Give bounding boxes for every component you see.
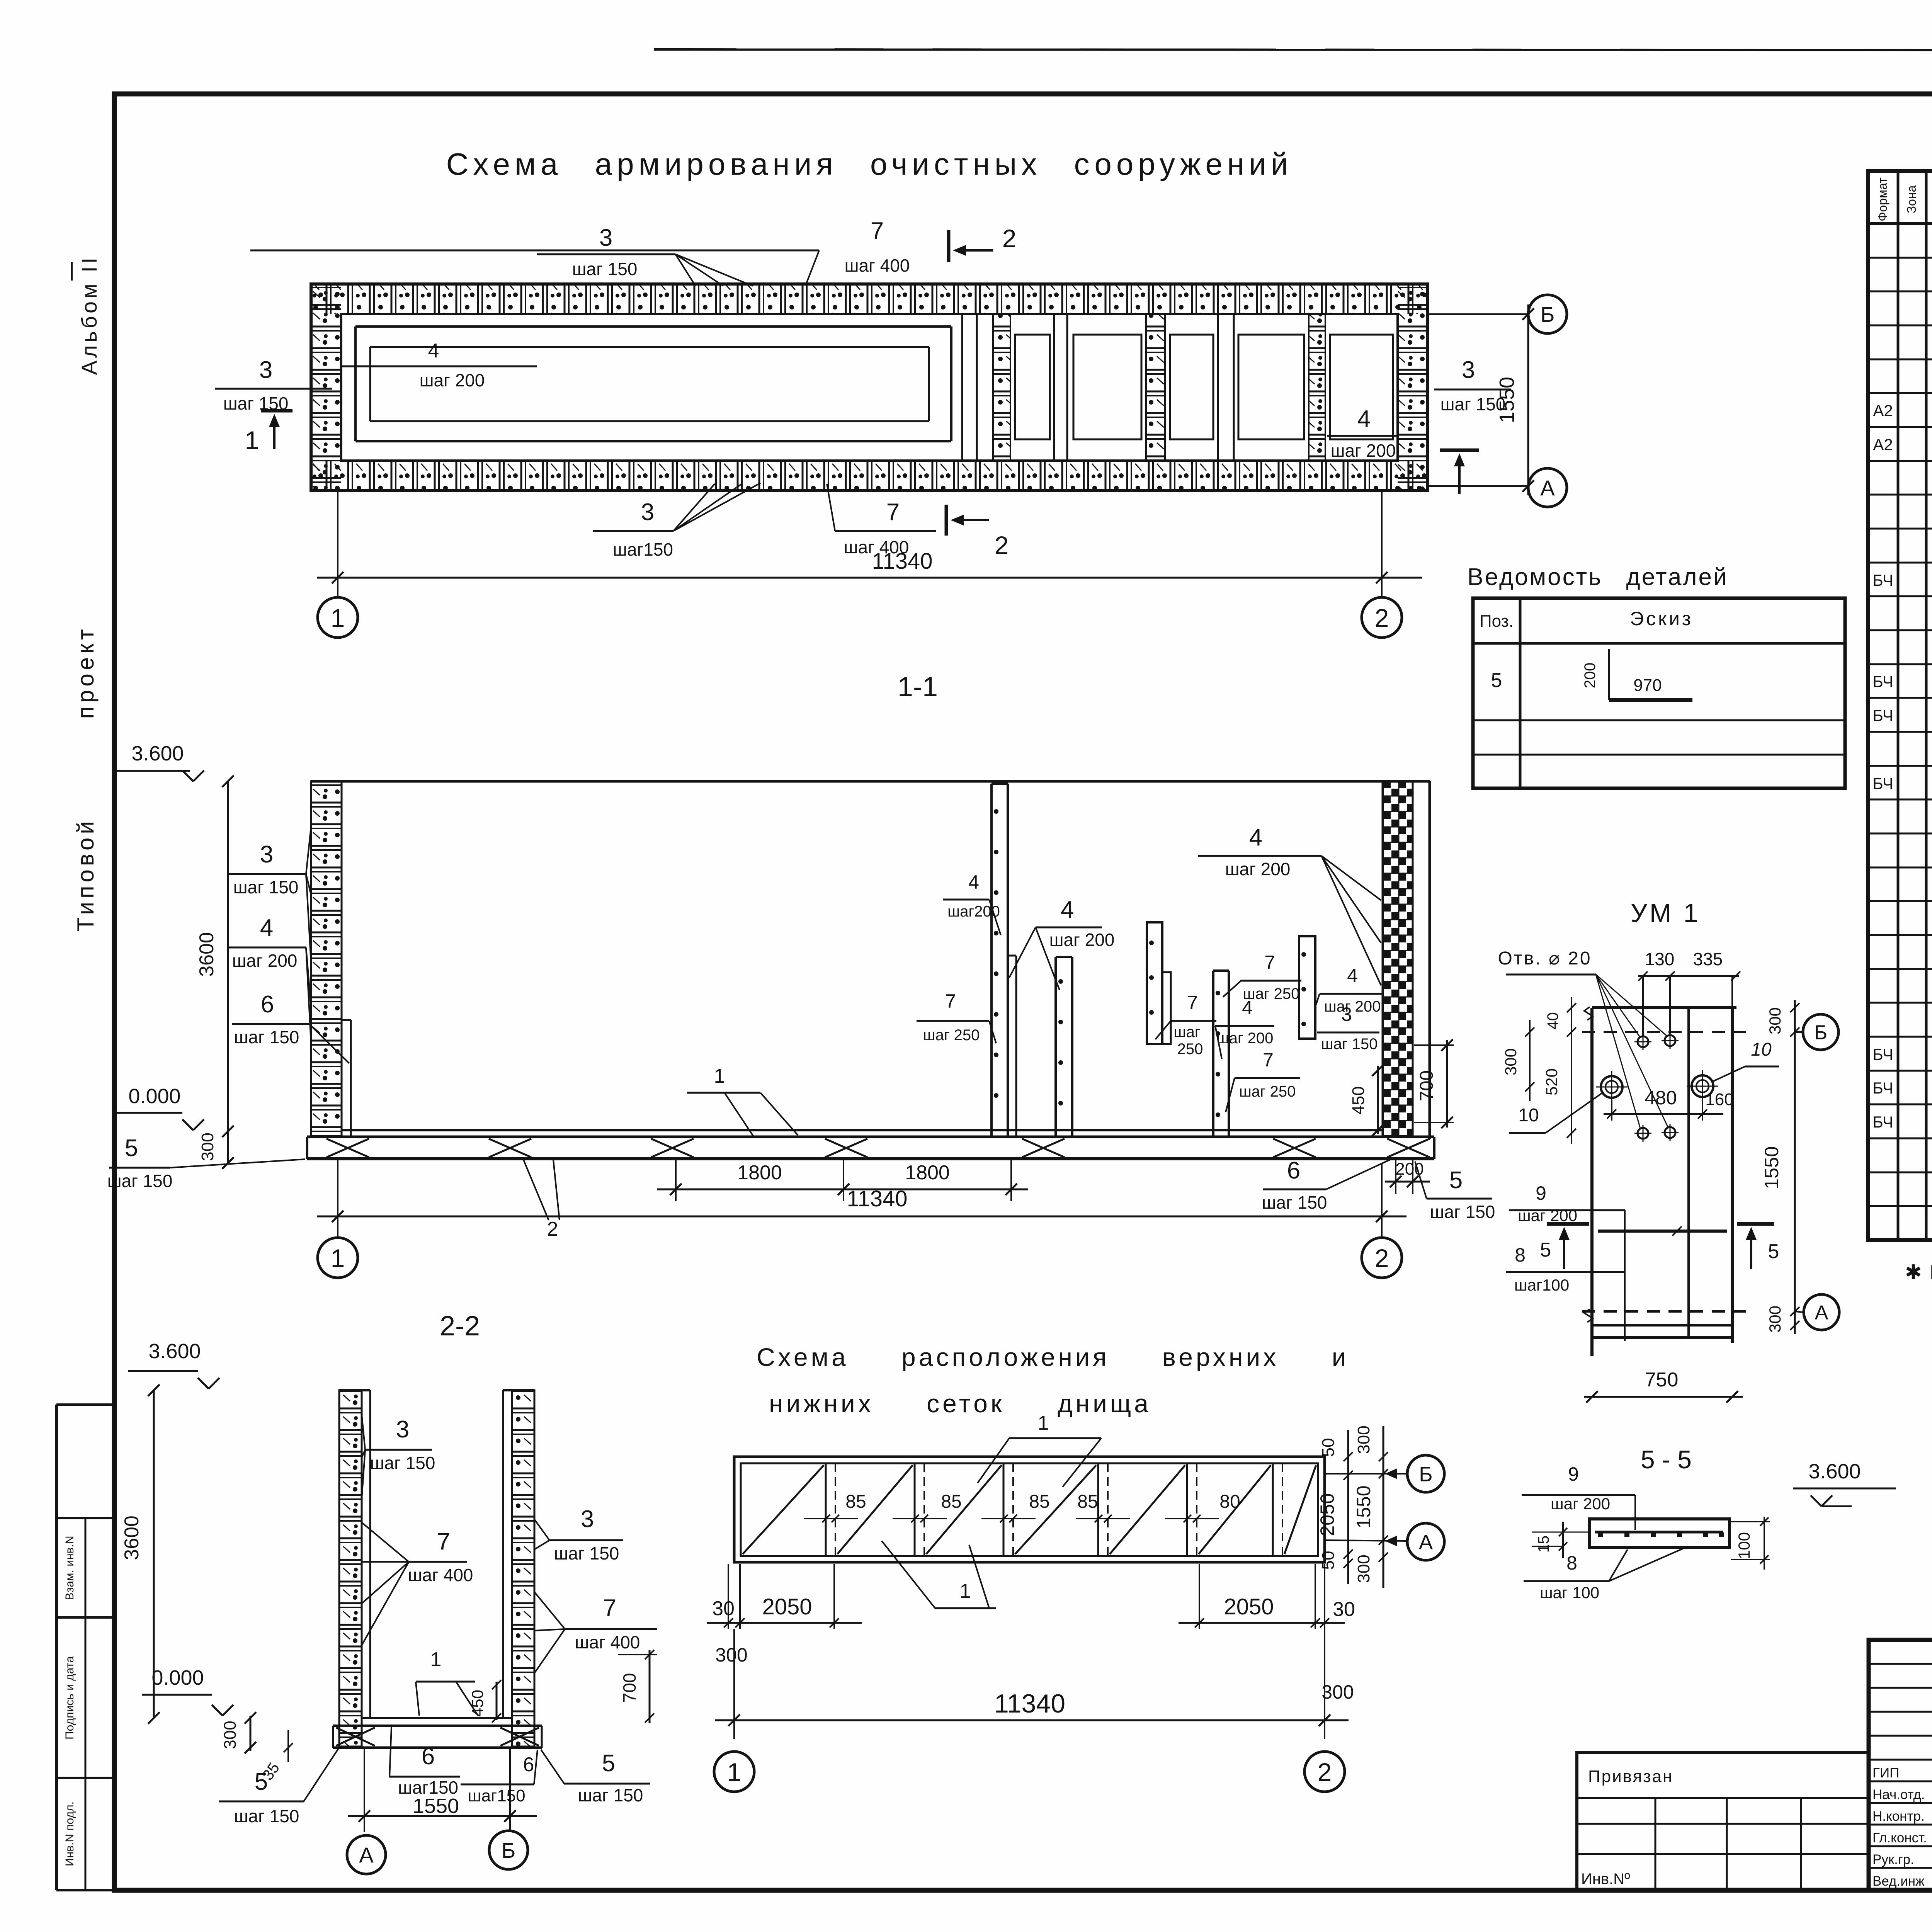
УМ1 hole c3: [1638, 1128, 1648, 1139]
section cut mark 1 right: [1440, 449, 1479, 452]
svg-text:1: 1: [714, 1065, 725, 1087]
svg-text:шаг 200: шаг 200: [1324, 998, 1381, 1015]
plan thin double wall E: [1217, 314, 1219, 461]
axis circle А (mesh): [1407, 1523, 1444, 1560]
svg-text:1800: 1800: [737, 1162, 782, 1184]
section 1-1 top line: [311, 780, 1430, 783]
svg-text:300: 300: [1354, 1425, 1373, 1454]
mesh plan dividers: [825, 1463, 827, 1556]
axis circle 2 (sec1-1): [1362, 1238, 1402, 1278]
svg-text:шаг 200: шаг 200: [232, 951, 298, 971]
svg-text:шаг 150: шаг 150: [1430, 1202, 1495, 1222]
svg-text:шаг 150: шаг 150: [233, 877, 299, 897]
sheet top edge scan line: [654, 49, 1932, 50]
svg-text:Формат: Формат: [1876, 177, 1889, 221]
sec2-2 left wall: [339, 1390, 362, 1747]
svg-text:1: 1: [430, 1648, 442, 1671]
axis circle Б (УМ1): [1795, 1031, 1803, 1033]
svg-text:4: 4: [1347, 965, 1358, 986]
axis circle А (УМ1): [1795, 1311, 1803, 1312]
svg-text:10: 10: [1518, 1105, 1539, 1126]
plan wall band top (mesh ladder): [311, 284, 1428, 314]
svg-text:1550: 1550: [1353, 1485, 1374, 1528]
svg-text:5 - 5: 5 - 5: [1641, 1445, 1692, 1474]
svg-text:3.600: 3.600: [1808, 1460, 1861, 1483]
vert dim 3600 (2-2): [153, 1390, 155, 1718]
svg-text:80: 80: [1219, 1492, 1240, 1512]
svg-text:БЧ: БЧ: [1872, 774, 1893, 793]
УМ1 cut mark 5 left: [1547, 1222, 1589, 1226]
svg-text:1: 1: [960, 1580, 971, 1602]
plan wall band right: [1398, 284, 1428, 491]
svg-text:шаг 200: шаг 200: [1551, 1495, 1610, 1513]
sec2-2 left wall lining: [369, 1390, 371, 1718]
УМ1 dim chain right: [1794, 1000, 1796, 1334]
УМ1 hole c2: [1665, 1035, 1675, 1046]
svg-text:100: 100: [1735, 1532, 1753, 1559]
svg-text:3600: 3600: [121, 1515, 143, 1560]
svg-text:Б: Б: [502, 1838, 516, 1862]
svg-text:4: 4: [428, 340, 439, 362]
section cut mark 2 bottom: [945, 505, 948, 536]
plan channel outer: [355, 325, 951, 328]
svg-text:Ведомость деталей: Ведомость деталей: [1467, 564, 1728, 590]
svg-text:11340: 11340: [872, 549, 933, 574]
svg-text:Эскиз: Эскиз: [1630, 608, 1693, 629]
УМ1 dim 480: [1611, 1100, 1612, 1121]
baffle b1 tall: [990, 784, 993, 1136]
svg-text:3.600: 3.600: [131, 742, 184, 765]
svg-text:шаг 250: шаг 250: [1243, 985, 1300, 1002]
svg-text:7: 7: [945, 990, 956, 1012]
svg-text:4: 4: [968, 871, 979, 893]
section 1-1 interior floor line: [342, 1129, 1383, 1131]
svg-text:4: 4: [1249, 824, 1262, 851]
svg-text:шаг 250: шаг 250: [923, 1027, 980, 1044]
svg-text:А: А: [1419, 1531, 1433, 1554]
svg-text:Б: Б: [1814, 1022, 1827, 1044]
svg-text:1550: 1550: [413, 1794, 459, 1818]
svg-text:А2: А2: [1873, 435, 1893, 454]
svg-text:шаг 150: шаг 150: [107, 1171, 173, 1191]
plan axis circle Б: [1528, 295, 1567, 333]
plan axis circle 1: [318, 597, 358, 638]
svg-text:Нач.отд.: Нач.отд.: [1872, 1787, 1925, 1802]
svg-text:3: 3: [1462, 357, 1475, 383]
УМ1 tube T2: [1692, 1075, 1713, 1097]
svg-text:300: 300: [715, 1644, 747, 1666]
svg-text:7: 7: [886, 499, 900, 526]
plan interior hatched wall C: [1309, 314, 1325, 461]
svg-text:450: 450: [1349, 1086, 1368, 1114]
svg-text:✱ Позицию 5 - смотреть ведомо: ✱ Позицию 5 - смотреть ведомость деталей…: [1905, 1261, 1932, 1284]
svg-text:1: 1: [727, 1758, 742, 1786]
svg-text:3: 3: [581, 1506, 594, 1532]
svg-text:8: 8: [1566, 1552, 1577, 1574]
svg-text:шаг150: шаг150: [613, 539, 673, 560]
svg-text:480: 480: [1645, 1087, 1677, 1109]
plan interior hatched wall B: [1146, 314, 1165, 461]
vedomost sketch pos5: [1608, 649, 1610, 700]
5-5 dim 100: [1764, 1517, 1765, 1570]
УМ1 axis А dashed: [1582, 1310, 1746, 1313]
УМ1 tube T1: [1601, 1076, 1622, 1098]
section 1-1 right wall (hatched): [1383, 781, 1413, 1136]
svg-text:шаг 150: шаг 150: [572, 259, 638, 279]
plan interior hatched wall A: [993, 314, 1010, 461]
svg-text:160: 160: [1705, 1090, 1733, 1109]
slab X crosses: [327, 1139, 369, 1157]
section 1-1 left wall (hatched): [311, 781, 342, 1136]
plan cell lining 4: [1238, 335, 1304, 439]
spec table grid: [1868, 171, 1932, 1240]
svg-text:БЧ: БЧ: [1872, 1079, 1893, 1097]
svg-text:30: 30: [712, 1597, 735, 1620]
УМ1 body left edge: [1590, 1008, 1594, 1356]
plan dim 11340: [337, 492, 338, 597]
svg-text:3: 3: [641, 499, 654, 526]
dim 35 (2-2): [287, 1730, 289, 1762]
svg-text:1: 1: [245, 426, 259, 454]
svg-text:Привязан: Привязан: [1588, 1767, 1673, 1786]
svg-text:10: 10: [1751, 1039, 1772, 1060]
svg-text:5: 5: [125, 1135, 138, 1162]
svg-text:7: 7: [1264, 952, 1275, 973]
axis circle А (2-2): [347, 1835, 386, 1874]
svg-text:300: 300: [221, 1721, 240, 1749]
mesh plan inner rect: [741, 1463, 1318, 1556]
svg-text:1: 1: [331, 604, 345, 632]
svg-text:300: 300: [1766, 1306, 1784, 1333]
sec2-2 right wall: [512, 1390, 534, 1747]
plan axis circle 2: [1362, 597, 1402, 638]
svg-text:БЧ: БЧ: [1872, 672, 1893, 690]
vert dim 700: [1414, 1044, 1454, 1046]
svg-text:9: 9: [1568, 1463, 1579, 1485]
svg-text:шаг 200: шаг 200: [1217, 1030, 1274, 1047]
svg-text:3: 3: [396, 1416, 409, 1443]
svg-text:335: 335: [1693, 949, 1723, 969]
5-5 plate: [1589, 1519, 1730, 1548]
privyazan table: [1577, 1752, 1869, 1890]
vert dim 300 (2-2): [250, 1716, 252, 1751]
svg-text:ГИП: ГИП: [1872, 1765, 1899, 1781]
svg-text:шаг: шаг: [1174, 1024, 1201, 1041]
vert dim 450: [1377, 1066, 1379, 1134]
svg-text:11340: 11340: [994, 1689, 1065, 1718]
svg-text:Взам. инв.N: Взам. инв.N: [63, 1536, 76, 1600]
svg-text:85: 85: [1077, 1492, 1098, 1512]
svg-text:970: 970: [1633, 676, 1662, 695]
svg-text:шаг 150: шаг 150: [1262, 1192, 1327, 1213]
svg-text:шаг 200: шаг 200: [1518, 1206, 1577, 1225]
svg-text:БЧ: БЧ: [1872, 706, 1893, 724]
svg-text:6: 6: [422, 1743, 435, 1770]
svg-text:3.600: 3.600: [148, 1340, 201, 1363]
svg-text:шаг 150: шаг 150: [578, 1785, 643, 1805]
baffle b3 side plate: [1162, 972, 1171, 1044]
svg-text:Схема армирования очистных соо: Схема армирования очистных сооружений: [446, 147, 1293, 181]
svg-text:5: 5: [1491, 669, 1502, 692]
5-5 mesh bar: [1595, 1531, 1723, 1534]
svg-text:4: 4: [260, 915, 273, 941]
svg-text:шаг 200: шаг 200: [1049, 930, 1115, 950]
sec2-2 right wall lining: [502, 1390, 504, 1718]
УМ1 dim 300 left: [1529, 1020, 1531, 1101]
svg-text:6: 6: [1287, 1157, 1300, 1184]
УМ1 body right edge: [1731, 1008, 1734, 1343]
svg-text:5: 5: [1540, 1239, 1551, 1261]
vert dim 700 (2-2): [618, 1654, 657, 1655]
svg-text:А: А: [1540, 476, 1555, 500]
sec2-2 floor line: [362, 1717, 512, 1719]
section cut mark 1 left: [261, 409, 293, 413]
svg-text:2: 2: [1318, 1758, 1332, 1786]
svg-text:2050: 2050: [1224, 1594, 1274, 1619]
svg-text:7: 7: [437, 1528, 450, 1555]
svg-text:1-1: 1-1: [898, 672, 938, 702]
svg-text:шаг 400: шаг 400: [408, 1565, 473, 1585]
УМ1 cut mark 5 right: [1737, 1222, 1774, 1226]
svg-text:700: 700: [1417, 1070, 1437, 1101]
svg-text:БЧ: БЧ: [1872, 1045, 1893, 1063]
axis circle 1 (sec1-1): [318, 1238, 358, 1278]
svg-text:шаг 200: шаг 200: [1225, 859, 1291, 879]
svg-text:шаг 150: шаг 150: [370, 1453, 435, 1473]
mesh plan leader to Б: [1325, 1473, 1407, 1475]
title block left grid rows: [1869, 1663, 1932, 1665]
svg-text:шаг 400: шаг 400: [575, 1632, 640, 1652]
svg-text:Альбом II: Альбом II: [77, 255, 101, 375]
svg-text:1550: 1550: [1495, 377, 1519, 423]
svg-text:0.000: 0.000: [151, 1666, 204, 1689]
svg-text:3: 3: [1341, 1003, 1352, 1025]
plan thin double wall F (after channel): [961, 314, 963, 461]
section 1-1 bottom slab: [307, 1136, 1434, 1138]
svg-text:8: 8: [1515, 1244, 1526, 1266]
svg-text:Гл.конст.: Гл.конст.: [1872, 1830, 1927, 1845]
svg-text:Б: Б: [1419, 1463, 1432, 1486]
svg-text:нижних сеток днища: нижних сеток днища: [769, 1389, 1151, 1418]
svg-text:Поз.: Поз.: [1480, 612, 1514, 631]
svg-text:7: 7: [603, 1595, 616, 1621]
baffle b2: [1054, 957, 1057, 1136]
vedomost table: [1473, 598, 1845, 788]
svg-text:300: 300: [1354, 1554, 1373, 1583]
svg-text:6: 6: [523, 1753, 534, 1776]
УМ1 top edge: [1592, 1006, 1736, 1009]
svg-text:1: 1: [331, 1244, 345, 1272]
svg-text:0.000: 0.000: [128, 1085, 180, 1108]
УМ1 bottom lines: [1592, 1324, 1732, 1327]
svg-text:7: 7: [1187, 992, 1198, 1014]
svg-text:4: 4: [1357, 406, 1371, 432]
svg-text:Инв.N подл.: Инв.N подл.: [63, 1801, 76, 1866]
svg-text:1800: 1800: [905, 1162, 950, 1184]
svg-text:шаг200: шаг200: [947, 903, 1000, 920]
svg-text:2: 2: [1375, 1244, 1389, 1272]
svg-text:шаг100: шаг100: [1514, 1276, 1569, 1294]
svg-text:6: 6: [261, 991, 274, 1018]
svg-text:200: 200: [1582, 663, 1599, 689]
plan right dim 1550: [1428, 313, 1527, 315]
svg-text:шаг 400: шаг 400: [845, 255, 910, 276]
svg-text:Инв.Nº: Инв.Nº: [1581, 1871, 1630, 1888]
svg-text:15: 15: [1535, 1536, 1552, 1553]
svg-text:30: 30: [1333, 1598, 1355, 1621]
svg-text:750: 750: [1645, 1369, 1679, 1391]
svg-text:3: 3: [260, 841, 273, 868]
section 1-1 right wall outer face: [1429, 781, 1431, 1139]
svg-text:7: 7: [1263, 1049, 1274, 1071]
svg-text:Подпись и дата: Подпись и дата: [63, 1656, 76, 1740]
svg-text:Типовой проект: Типовой проект: [73, 626, 99, 931]
svg-text:3: 3: [259, 357, 272, 383]
mesh plan axis circle 2: [1304, 1752, 1345, 1792]
svg-text:А2: А2: [1873, 401, 1893, 420]
svg-text:шаг 200: шаг 200: [420, 370, 485, 390]
svg-text:БЧ: БЧ: [1872, 571, 1893, 589]
УМ1 inner vertical: [1687, 1008, 1690, 1337]
svg-text:5: 5: [255, 1769, 268, 1795]
УМ1 break marks: [1584, 1007, 1593, 1020]
svg-text:шаг150: шаг150: [468, 1786, 525, 1805]
svg-text:А: А: [359, 1843, 374, 1867]
svg-text:УМ 1: УМ 1: [1631, 898, 1701, 928]
mesh plan right dim chain 2: [1383, 1426, 1384, 1588]
svg-text:3600: 3600: [196, 932, 218, 977]
svg-text:4: 4: [1061, 896, 1074, 923]
svg-text:шаг 150: шаг 150: [554, 1543, 619, 1563]
mesh plan axis circle 1: [714, 1752, 754, 1792]
vert dim 450 (2-2): [496, 1682, 498, 1720]
plan thin double wall D: [1053, 314, 1055, 461]
baffle b1 lining step: [1015, 956, 1017, 1136]
svg-text:9: 9: [1536, 1182, 1546, 1204]
sec2-2 slab: [333, 1725, 542, 1727]
svg-text:5: 5: [1768, 1240, 1779, 1263]
svg-text:Отв. ⌀ 20: Отв. ⌀ 20: [1498, 948, 1592, 969]
dim 200 (bottom right): [1395, 1160, 1396, 1194]
svg-text:1: 1: [1038, 1412, 1049, 1434]
left margin stamp boxes: [56, 1403, 114, 1406]
svg-text:11340: 11340: [847, 1186, 908, 1211]
svg-text:Н.контр.: Н.контр.: [1872, 1809, 1925, 1824]
plan wall band bottom: [311, 461, 1428, 491]
baffle b5 hanging: [1299, 936, 1315, 1039]
svg-text:2050: 2050: [762, 1594, 812, 1619]
section cut mark 2 top: [947, 230, 951, 262]
svg-text:85: 85: [1029, 1492, 1049, 1512]
mesh plan outer rect: [734, 1457, 1325, 1562]
axis circle Б (2-2): [489, 1831, 528, 1869]
svg-text:85: 85: [941, 1492, 961, 1512]
УМ1 top dims 130 335: [1642, 976, 1644, 1036]
svg-text:5: 5: [1449, 1167, 1463, 1194]
mesh plan right dim chain 1: [1347, 1430, 1349, 1584]
plan cell lining 1: [1015, 335, 1050, 439]
svg-text:А: А: [1815, 1302, 1828, 1324]
dim 1800 1800: [675, 1160, 677, 1201]
5-5 dim 15: [1530, 1532, 1588, 1532]
svg-text:50: 50: [1319, 1438, 1338, 1457]
svg-text:2: 2: [1002, 224, 1017, 253]
vert dim 3600: [227, 781, 229, 1131]
axis circle Б (mesh): [1407, 1455, 1444, 1492]
svg-text:Б: Б: [1541, 302, 1555, 327]
mesh plan dim 11340: [715, 1719, 1349, 1721]
baffle b4: [1212, 971, 1214, 1136]
dim 1550 (2-2): [364, 1749, 365, 1832]
mesh plan diagonals: [743, 1465, 824, 1554]
svg-text:300: 300: [1502, 1048, 1520, 1075]
title block outer: [1869, 1640, 1932, 1890]
svg-text:Рук.гр.: Рук.гр.: [1872, 1852, 1914, 1867]
svg-text:5: 5: [602, 1750, 615, 1777]
svg-text:7: 7: [871, 218, 884, 244]
svg-text:2: 2: [1375, 604, 1389, 632]
УМ1 dim 750: [1584, 1396, 1743, 1398]
svg-text:Зона: Зона: [1905, 185, 1918, 214]
svg-text:1550: 1550: [1761, 1146, 1782, 1189]
svg-text:шаг 100: шаг 100: [1540, 1583, 1599, 1602]
svg-text:300: 300: [1321, 1681, 1354, 1703]
svg-text:300: 300: [198, 1133, 217, 1161]
plan cell lining 3: [1170, 335, 1213, 439]
svg-text:шаг 150: шаг 150: [234, 1806, 299, 1826]
svg-text:520: 520: [1543, 1068, 1561, 1095]
svg-text:2: 2: [547, 1218, 558, 1240]
section 1-1 left wall lining: [350, 1020, 352, 1136]
svg-text:130: 130: [1645, 949, 1675, 969]
svg-text:50: 50: [1319, 1551, 1338, 1570]
plan cell lining 5: [1330, 335, 1393, 439]
УМ1 dim 40/520: [1571, 997, 1572, 1144]
plan channel inner: [370, 346, 929, 348]
svg-text:2: 2: [995, 531, 1009, 560]
УМ1 cut line 5-5: [1598, 1230, 1727, 1233]
svg-text:300: 300: [1766, 1007, 1784, 1034]
svg-text:450: 450: [468, 1690, 486, 1717]
dim 11340 (sec1-1): [337, 1160, 338, 1236]
svg-text:2-2: 2-2: [440, 1311, 480, 1342]
plan cell lining 2: [1073, 335, 1141, 439]
mesh plan dim 2050 right: [1315, 1564, 1316, 1629]
vert dim 300: [227, 1131, 229, 1163]
svg-text:85: 85: [845, 1492, 866, 1512]
УМ1 hole c1: [1638, 1036, 1648, 1047]
svg-text:Схема расположения верхних и: Схема расположения верхних и: [757, 1343, 1349, 1371]
plan axis circle А: [1528, 468, 1567, 507]
mesh plan leader to А: [1325, 1540, 1407, 1541]
svg-text:шаг 200: шаг 200: [1331, 440, 1396, 461]
svg-text:3: 3: [599, 224, 612, 251]
plan wall band left: [311, 284, 341, 491]
svg-text:шаг 150: шаг 150: [1321, 1036, 1378, 1053]
svg-text:шаг 250: шаг 250: [1239, 1083, 1296, 1100]
svg-text:БЧ: БЧ: [1872, 1113, 1893, 1131]
svg-text:700: 700: [619, 1673, 639, 1703]
svg-text:шаг 150: шаг 150: [234, 1027, 299, 1047]
УМ1 hole c4: [1665, 1127, 1675, 1138]
svg-text:Вед.инж: Вед.инж: [1872, 1874, 1925, 1889]
svg-text:250: 250: [1177, 1041, 1203, 1058]
plan inner wall face: [341, 314, 1398, 461]
baffle b3 hanging: [1147, 922, 1162, 1044]
svg-text:2050: 2050: [1316, 1493, 1338, 1536]
plan outer wall outline: [311, 284, 1428, 491]
УМ1 axis Б dashed: [1582, 1031, 1746, 1033]
